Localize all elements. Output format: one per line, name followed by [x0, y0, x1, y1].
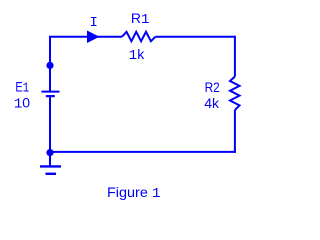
svg-text:R2: R2 — [205, 79, 220, 95]
wire: top horizontal segment (corner to R1 left lead) — [49, 36, 122, 38]
wire: top-left vertical segment (corner to battery + terminal) — [49, 36, 51, 92]
wire: left vertical segment (battery - terminal to ground node) — [49, 97, 51, 154]
resistor R1 (1k) zigzag — [122, 32, 156, 41]
svg-text:1k: 1k — [129, 46, 145, 64]
wire: right vertical segment (corner to R2 top lead) — [234, 36, 236, 77]
resistor R2 (4k) zigzag — [230, 77, 240, 111]
battery E1 negative plate — [46, 95, 55, 97]
ground symbol stub — [49, 153, 51, 166]
svg-text:10: 10 — [14, 95, 30, 113]
svg-text:Figure 1: Figure 1 — [107, 184, 161, 202]
wire: bottom horizontal segment — [50, 151, 236, 153]
ground symbol bar 2 — [46, 173, 57, 175]
ground symbol bar 1 — [40, 165, 61, 167]
svg-text:I: I — [90, 15, 98, 31]
wire: right vertical segment (R2 bottom lead to bottom-right corner) — [234, 110, 236, 153]
node: ground junction dot — [46, 149, 53, 156]
wire: top horizontal segment (R1 right lead to top-right corner) — [156, 36, 235, 38]
battery E1 (10 V) positive plate — [42, 91, 60, 93]
current arrow I — [87, 31, 100, 44]
node: junction dot on left branch — [46, 62, 53, 69]
svg-text:R1: R1 — [131, 10, 150, 28]
svg-text:4k: 4k — [204, 95, 220, 111]
